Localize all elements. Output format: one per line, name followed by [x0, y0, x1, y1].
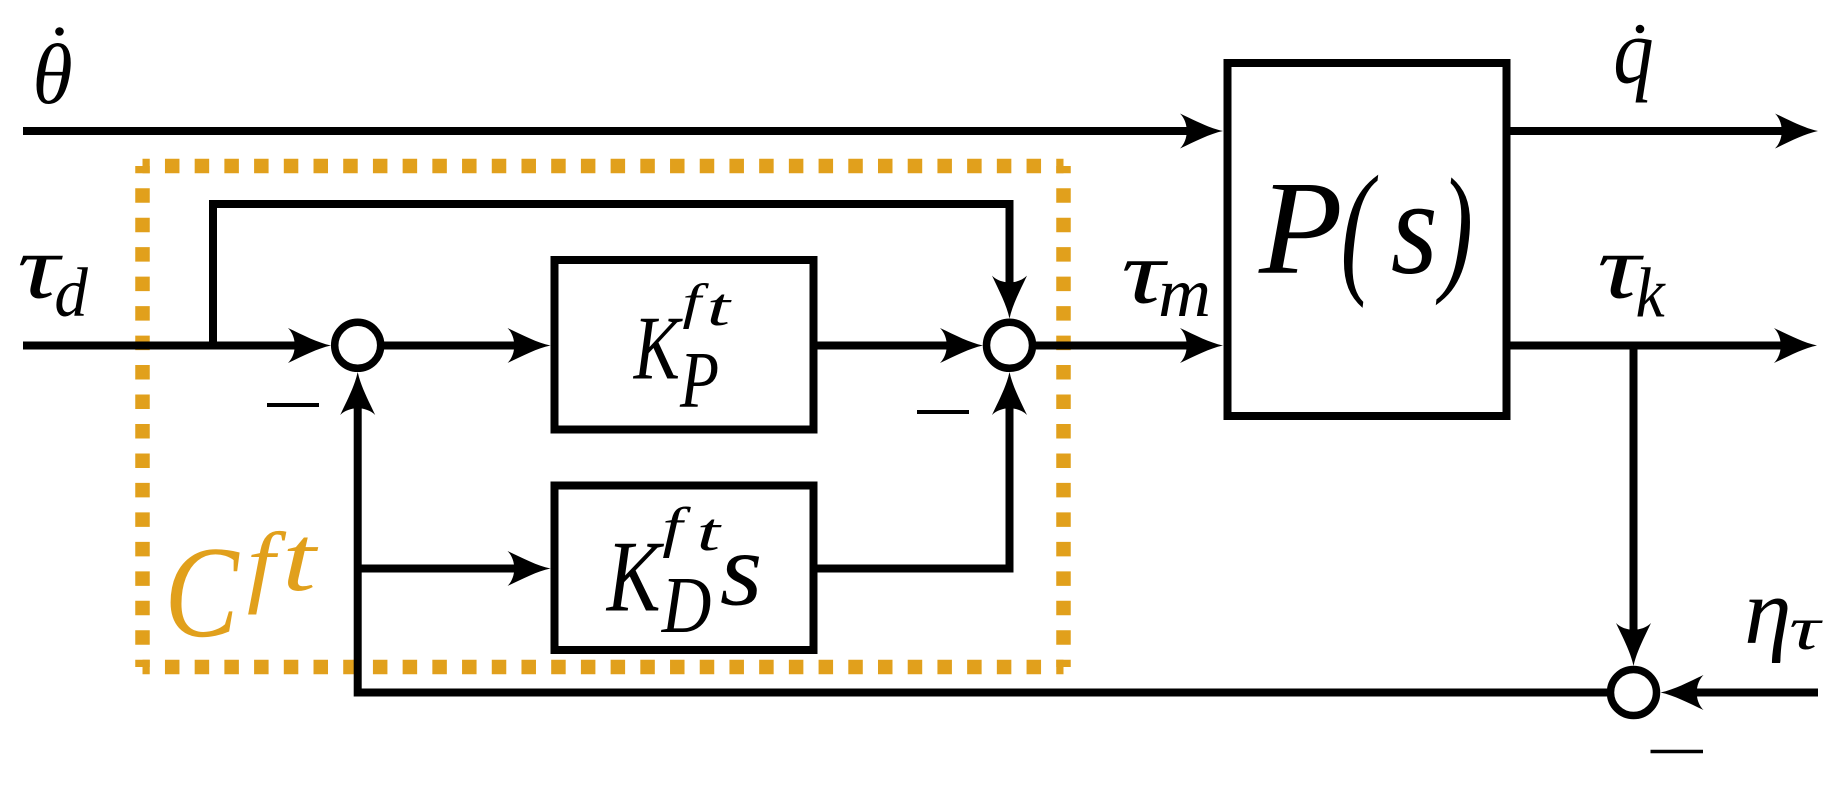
arrow into circle2 left: [940, 328, 983, 363]
label tau_m: [1121, 223, 1169, 323]
arrow into P(s) top: [1180, 114, 1223, 149]
block KD: [555, 486, 814, 651]
block KP: [555, 260, 814, 430]
block P(s): [1228, 63, 1507, 416]
label tau_k: [1597, 217, 1644, 318]
arrow into circle3 from right: [1661, 675, 1704, 710]
svg-text:K: K: [633, 298, 683, 398]
arrow tau_k out: [1774, 328, 1817, 363]
label tau_d: [17, 216, 63, 317]
svg-text:K: K: [605, 519, 665, 632]
wire KP to circle2: [817, 342, 952, 350]
svg-text:P: P: [1258, 154, 1343, 302]
label KD block: [605, 519, 665, 632]
label eta_tau: [1744, 561, 1791, 664]
svg-text:C: C: [164, 521, 240, 665]
arrow into KD: [508, 551, 551, 586]
wire circle1 to KP: [384, 342, 520, 350]
arrow into circle1: [288, 328, 331, 363]
arrow into circle1 from bottom: [340, 372, 375, 415]
svg-text:s: s: [720, 512, 762, 628]
svg-text:t: t: [707, 277, 732, 337]
arrow into circle2 from top: [992, 276, 1027, 319]
arrow qdot out: [1775, 114, 1818, 149]
svg-text:s: s: [1391, 151, 1438, 302]
minus sign at circle3: [1651, 750, 1704, 754]
arrow into circle2 from bottom: [992, 372, 1027, 415]
arrow into KP: [508, 328, 551, 363]
wire bottom feedback: [358, 406, 1607, 693]
svg-text:): ): [1436, 151, 1473, 307]
wire qdot output: [1507, 127, 1787, 135]
wire eta_tau input: [1692, 689, 1818, 697]
summing junction circle3: [1611, 670, 1657, 716]
wire tau_k branch down: [1630, 346, 1638, 636]
wire feedforward branch up: [213, 204, 1010, 346]
minus sign at circle2: [917, 410, 969, 414]
svg-text:τ: τ: [1789, 595, 1822, 663]
arrow into P(s) bottom: [1180, 328, 1223, 363]
svg-text:k: k: [1636, 253, 1667, 332]
label theta-dot: [33, 27, 73, 122]
svg-text:d: d: [54, 254, 88, 332]
svg-text:D: D: [661, 562, 712, 650]
wire tau_d input line: [23, 342, 300, 350]
wire tau_k output: [1507, 342, 1786, 350]
arrow into circle3 from top: [1616, 623, 1651, 666]
label Cft orange: [164, 521, 240, 665]
svg-text:P: P: [679, 335, 719, 424]
wire KD output: [817, 406, 1010, 569]
svg-text:q: q: [1613, 0, 1653, 103]
label KP block: [633, 298, 683, 398]
summing junction circle1: [335, 322, 381, 368]
svg-text:t: t: [697, 502, 722, 562]
svg-text:η: η: [1744, 561, 1791, 664]
summing junction circle2: [987, 322, 1033, 368]
wire circle2 to P(s) tau_m: [1036, 342, 1192, 350]
label P(s): [1258, 154, 1343, 302]
svg-text:θ: θ: [33, 27, 73, 122]
wire theta-dot top line: [23, 127, 1192, 135]
svg-text:t: t: [282, 508, 319, 611]
minus sign at circle1: [267, 403, 319, 407]
wire KD branch: [358, 565, 520, 573]
label qdot: [1613, 0, 1653, 103]
svg-text:m: m: [1158, 254, 1211, 331]
dashed box Cft controller: [143, 166, 1064, 667]
